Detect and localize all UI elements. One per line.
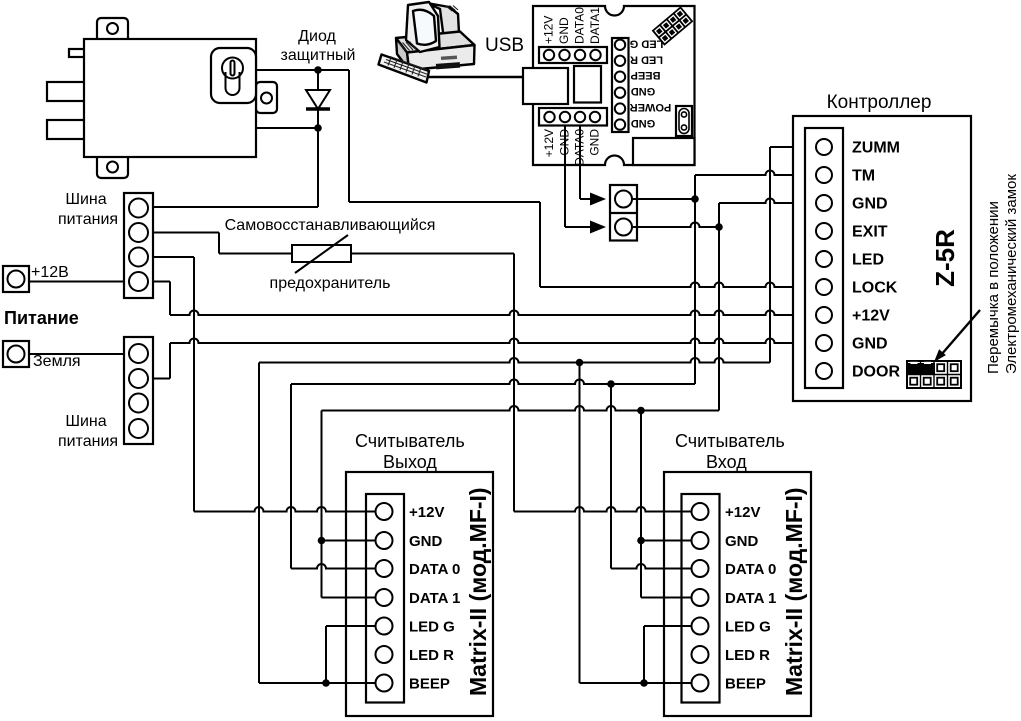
- wire: GND rail y343 to controller: [170, 339, 816, 344]
- junction: left reader GND tap: [318, 537, 326, 545]
- power bus block top (Шина питания): [124, 193, 153, 298]
- svg-text:GND: GND: [588, 129, 602, 156]
- wire: adapter DATA0 pin lead down: [579, 117, 581, 199]
- wire: controller GND terminal lead: [719, 199, 816, 204]
- USB plug on board: [523, 68, 568, 104]
- wire: controller TM terminal lead: [695, 171, 816, 176]
- svg-text:DATA 1: DATA 1: [725, 590, 776, 607]
- svg-text:LED R: LED R: [409, 647, 454, 664]
- 2-pin programming connector: [610, 185, 637, 241]
- wire: ZUMM drop x259 to left reader BEEP: [258, 363, 260, 684]
- top-right jumper header (rotated): [653, 8, 692, 45]
- svg-text:Перемычка в положении: Перемычка в положении: [985, 201, 1002, 374]
- wire: connector pin 2 to GND node: [632, 223, 719, 227]
- junction: GND node: [715, 223, 723, 231]
- lock mounting holes: [107, 23, 272, 173]
- wire: right reader BEEP row: [580, 682, 692, 684]
- junction: right reader BEEP/LED G tie: [640, 679, 648, 687]
- wire: right reader LED G to BEEP link: [643, 626, 645, 683]
- svg-text:ZUMM: ZUMM: [852, 139, 900, 156]
- svg-text:DATA 0: DATA 0: [409, 561, 460, 578]
- svg-text:+12V: +12V: [542, 16, 556, 44]
- svg-text:LED G: LED G: [725, 618, 771, 635]
- svg-text:POWER: POWER: [630, 101, 672, 113]
- wire: +12V terminal to power bus: [29, 281, 124, 283]
- wire: readers GND rail y410: [322, 406, 720, 411]
- junction: TM rail to right DATA0 drop: [607, 380, 615, 388]
- svg-text:LED R: LED R: [725, 647, 770, 664]
- svg-text:питания: питания: [58, 433, 118, 450]
- bottom 4-pin connector: [539, 108, 607, 126]
- svg-text:GND: GND: [557, 17, 571, 44]
- svg-text:GND: GND: [631, 85, 656, 97]
- svg-text:GND: GND: [409, 533, 443, 550]
- wire: right reader DATA0 row: [611, 564, 692, 569]
- svg-text:BEEP: BEEP: [725, 675, 766, 692]
- wire: TM/DATA rail y384: [291, 380, 695, 385]
- junction: right reader GND tap: [637, 537, 645, 545]
- svg-text:GND: GND: [631, 117, 656, 129]
- wire: right reader DATA1 row: [641, 597, 692, 599]
- wire: lock terminal 2 to diode cathode node: [256, 127, 318, 129]
- wire: GND drop x321 to left reader GND/DATA1: [321, 411, 323, 598]
- wire: horizontal run y202: [349, 201, 540, 203]
- svg-text:Питание: Питание: [4, 308, 79, 328]
- wire: right reader LED G row: [644, 625, 692, 627]
- wire: ground bus terminal 2 stub: [153, 378, 170, 380]
- svg-text:Шина: Шина: [65, 413, 106, 430]
- wire: left reader DATA1 row: [322, 597, 376, 599]
- svg-text:GND: GND: [852, 335, 888, 352]
- wire: GND drop x641 to right reader GND/DATA1: [640, 411, 642, 598]
- terminal +12V: [3, 266, 29, 292]
- svg-text:+12В: +12В: [31, 264, 69, 281]
- wire: right reader GND row: [641, 540, 692, 542]
- svg-text:Выход: Выход: [383, 452, 437, 472]
- arrowhead: DATA0 to connector pin 1: [590, 193, 606, 206]
- USB cable: [428, 76, 523, 78]
- wire: DATA drop x611 to right reader DATA0: [610, 384, 612, 569]
- svg-text:GND: GND: [852, 195, 888, 212]
- wire: left reader +12V row: [194, 507, 376, 512]
- wire: controller ZUMM terminal lead: [770, 146, 816, 148]
- wire: bus terminal 2 to fuse: [153, 232, 219, 234]
- junction: ZUMM rail to right BEEP drop: [576, 359, 584, 367]
- svg-text:GND: GND: [558, 129, 572, 156]
- key cylinder: [222, 58, 243, 79]
- svg-text:LED: LED: [852, 251, 884, 268]
- terminal Земля (ground): [3, 341, 29, 367]
- svg-text:GND: GND: [725, 533, 759, 550]
- top 4-pin connector: [539, 47, 607, 63]
- wire: fuse output lead: [351, 253, 514, 255]
- right 6-pin connector: [612, 38, 629, 132]
- wire: diode node to power bus terminal 1: [151, 206, 318, 208]
- wire: LOCK line y287 to controller: [540, 283, 816, 288]
- svg-text:USB: USB: [485, 35, 524, 56]
- svg-text:Matrix-II (мод.MF-I): Matrix-II (мод.MF-I): [465, 487, 491, 696]
- wire: GND drop x719: [718, 203, 720, 411]
- svg-text:Matrix-II (мод.MF-I): Matrix-II (мод.MF-I): [781, 487, 807, 696]
- svg-text:LED G: LED G: [409, 618, 455, 635]
- svg-text:Земля: Земля: [33, 353, 81, 370]
- wire: adapter GND pin lead down: [564, 117, 566, 227]
- svg-text:Электромеханический замок: Электромеханический замок: [1003, 174, 1020, 374]
- wire: +12V rail y315 to controller: [170, 311, 816, 316]
- junction: TM node: [691, 195, 699, 203]
- wire: fuse input lead: [219, 253, 292, 255]
- junction: left reader BEEP/LED G tie: [322, 679, 330, 687]
- svg-text:TM: TM: [852, 167, 875, 184]
- wire: ZUMM drop x770: [769, 147, 771, 363]
- wire: fuse input riser: [218, 233, 220, 254]
- svg-text:Вход: Вход: [706, 452, 747, 472]
- svg-text:Z-5R: Z-5R: [930, 229, 960, 287]
- controller box Z-5R: [793, 116, 971, 401]
- wire: adapter DATA0 to connector arrow: [580, 198, 592, 200]
- svg-text:BEEP: BEEP: [631, 69, 661, 81]
- junction: diode anode to lock wire: [314, 66, 322, 74]
- diode VD1 protective, anode lead: [317, 70, 319, 90]
- svg-text:LED R: LED R: [630, 53, 663, 65]
- svg-text:питания: питания: [58, 211, 118, 228]
- svg-text:DATA0: DATA0: [573, 7, 587, 44]
- svg-text:BEEP: BEEP: [409, 675, 450, 692]
- reader 1 box (Считыватель Выход): [346, 472, 493, 716]
- svg-text:Контроллер: Контроллер: [827, 92, 932, 113]
- svg-text:DATA0: DATA0: [573, 129, 587, 166]
- svg-text:EXIT: EXIT: [852, 223, 888, 240]
- power bus block bottom (Шина питания): [124, 337, 153, 444]
- svg-text:Шина: Шина: [65, 191, 106, 208]
- wire: vertical drop x540 to LOCK line: [539, 202, 541, 287]
- wire: left reader BEEP row: [259, 682, 376, 684]
- svg-text:LOCK: LOCK: [852, 279, 898, 296]
- svg-text:предохранитель: предохранитель: [270, 275, 391, 292]
- wire: adapter GND to connector arrow: [565, 226, 592, 228]
- svg-text:Считыватель: Считыватель: [675, 431, 785, 451]
- lock: electromechanical lock body: [47, 18, 277, 178]
- board bottom-right block: [633, 138, 695, 165]
- wire: TM drop x695: [694, 175, 696, 384]
- svg-text:+12V: +12V: [725, 504, 760, 521]
- board middle component: [574, 66, 601, 103]
- wire: DATA drop x291 to left reader DATA0: [290, 384, 292, 569]
- svg-text:Самовосстанавливающийся: Самовосстанавливающийся: [225, 217, 436, 234]
- wire: left reader GND row: [322, 540, 376, 542]
- svg-text:DATA 0: DATA 0: [725, 561, 776, 578]
- wire: ZUMM drop x579 to right reader BEEP: [579, 363, 581, 684]
- arrow to jumper: [941, 310, 980, 355]
- wire: +12V drop x194 to left reader: [193, 257, 195, 512]
- wire: right reader +12V row: [514, 507, 692, 512]
- wire: lock terminal 1 to corner: [256, 69, 349, 71]
- svg-text:защитный: защитный: [281, 47, 356, 64]
- wire: left reader LED G row: [326, 625, 376, 627]
- svg-text:DATA1: DATA1: [588, 7, 602, 44]
- reader 2 box (Считыватель Вход): [664, 472, 811, 716]
- 2-pin component right of board: [676, 106, 692, 136]
- wire: bus terminal 3 stub: [153, 256, 194, 258]
- jumper block: [907, 361, 961, 388]
- fuse F1 diagonal stroke: [295, 235, 348, 273]
- svg-text:Диод: Диод: [298, 28, 336, 45]
- arrowhead: GND to connector pin 2: [590, 221, 606, 234]
- wire: vertical drop x349: [348, 70, 350, 202]
- diode VD1 cathode lead: [317, 109, 319, 207]
- diode VD1 triangle: [306, 90, 330, 109]
- wire: ZUMM rail y362: [259, 358, 770, 363]
- Z-2 USB adapter board outline: [533, 6, 695, 165]
- svg-text:+12V: +12V: [542, 129, 556, 157]
- svg-text:LED G: LED G: [630, 37, 664, 49]
- fuse F1 self-resetting body: [292, 245, 351, 262]
- wire: bus terminal 4 stub: [153, 281, 170, 283]
- wire: connector pin 1 to TM node: [632, 198, 695, 200]
- junction: diode cathode to lock wire: [314, 124, 322, 132]
- svg-text:Считыватель: Считыватель: [355, 431, 465, 451]
- wire: left reader DATA0 row: [291, 564, 376, 569]
- wire: GND rail riser x170: [169, 343, 171, 379]
- svg-text:+12V: +12V: [409, 504, 444, 521]
- wire: fuse output drop x514 to right reader +12V: [513, 254, 515, 512]
- computer icon: [379, 2, 475, 83]
- svg-text:DOOR: DOOR: [852, 363, 900, 380]
- svg-text:DATA 1: DATA 1: [409, 590, 460, 607]
- wire: ground terminal to ground bus: [29, 353, 124, 355]
- junction: GND rail to right GND drop: [637, 407, 645, 415]
- wire: left reader LED G to BEEP link: [325, 626, 327, 683]
- wire: +12V rail riser x170: [169, 282, 171, 316]
- jumper cap (black): [908, 363, 935, 375]
- diode VD1 cathode bar: [306, 107, 330, 111]
- svg-text:+12V: +12V: [852, 307, 890, 324]
